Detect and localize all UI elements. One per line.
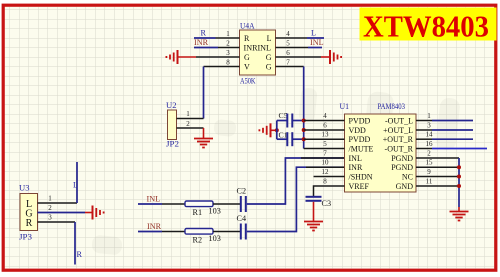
svg-text:V: V	[244, 63, 250, 72]
U2 pin 1	[177, 110, 204, 119]
svg-text:PGND: PGND	[391, 154, 413, 163]
wire R2 to C4	[213, 231, 240, 233]
wire net INL at U4A pin5	[308, 47, 322, 49]
svg-text:7: 7	[286, 59, 290, 67]
U1 right pin numbers	[426, 112, 434, 186]
wire U1 pin11 GND	[416, 185, 459, 187]
svg-text:INL: INL	[147, 195, 161, 204]
resistor R2	[185, 229, 221, 245]
svg-text:2: 2	[226, 40, 230, 48]
wire supply rail to U1 pin4	[304, 120, 345, 122]
svg-text:C2: C2	[237, 187, 247, 196]
U3 pin 1	[38, 195, 78, 204]
svg-text:8: 8	[323, 178, 327, 186]
svg-text:PVDD: PVDD	[349, 116, 371, 125]
wire ground at U3 pin2	[85, 212, 93, 214]
wire C2 to U1 pin7 (INL)	[247, 158, 345, 204]
svg-text:3: 3	[48, 214, 52, 222]
wire U1 pin1 -OUT_L	[416, 120, 432, 122]
earth ground below C3	[304, 222, 323, 231]
power ground (left-pointing) at caps	[259, 123, 270, 137]
power ground (right-pointing) at U4A pin6	[330, 50, 341, 64]
U3 pin 2	[38, 204, 86, 213]
svg-text:5: 5	[286, 40, 290, 48]
svg-text:INL: INL	[349, 154, 362, 163]
svg-text:4: 4	[323, 112, 327, 120]
U1 right pin names	[383, 116, 414, 191]
wire U4A pin8 down to U2 pin1	[203, 67, 205, 119]
svg-text:1: 1	[186, 110, 190, 118]
wire INL	[138, 203, 162, 205]
capacitor C3	[306, 197, 332, 208]
svg-text:R1: R1	[193, 208, 203, 217]
wire net INR to U4A pin2	[194, 47, 218, 49]
U4A pin 5	[276, 40, 309, 48]
wire ground to cap bracket	[271, 129, 277, 131]
svg-text:L: L	[267, 34, 272, 43]
wire cap bracket	[276, 121, 278, 140]
svg-text:JP2: JP2	[166, 140, 179, 149]
svg-text:INRINL: INRINL	[244, 44, 272, 53]
U4A pin 4	[276, 30, 308, 38]
svg-text:R: R	[26, 218, 33, 229]
earth ground below U2	[194, 139, 213, 148]
wire C4 to U1 pin10 (INR)	[247, 167, 345, 231]
U4A pin 7	[276, 59, 304, 67]
svg-text:103: 103	[209, 207, 221, 216]
svg-text:2: 2	[427, 150, 431, 158]
svg-text:VDD: VDD	[349, 126, 367, 135]
capacitor C4	[237, 214, 247, 240]
svg-text:1: 1	[226, 30, 230, 38]
IC U1 body	[340, 102, 417, 192]
ground bus wire	[458, 158, 460, 207]
U4A pin 1	[216, 30, 240, 38]
connector U3 body	[19, 184, 38, 242]
resistor R1	[185, 201, 221, 217]
svg-text:11: 11	[426, 178, 433, 186]
U2 pin 2	[177, 120, 204, 128]
wire net R to U4A pin1	[194, 37, 216, 39]
wire supply rail to U1 pin13	[304, 138, 345, 140]
svg-text:4: 4	[286, 30, 290, 38]
svg-text:2: 2	[186, 120, 190, 128]
wire ground to U4A pin3	[178, 56, 196, 58]
wire U1 pin3 +OUT_L	[416, 129, 432, 131]
wire net L at U4A pin4	[307, 37, 324, 39]
svg-text:7: 7	[323, 150, 327, 158]
svg-text:U1: U1	[340, 102, 350, 111]
connector U2 body	[166, 101, 179, 149]
svg-text:C4: C4	[237, 214, 247, 223]
U1 left pin numbers	[322, 112, 330, 186]
U4A pin 2	[218, 40, 240, 48]
svg-text:3: 3	[226, 49, 230, 57]
capacitor C2	[237, 187, 247, 213]
junction dots on supply rail	[302, 119, 306, 123]
svg-text:C3: C3	[322, 199, 332, 208]
svg-text:10: 10	[322, 159, 330, 167]
wire U1 pin8 VREF to C3	[314, 186, 345, 196]
U1 left pin names	[349, 116, 374, 191]
svg-text:2: 2	[48, 204, 52, 212]
svg-text:L: L	[73, 181, 78, 190]
wire U2 pin2 to ground	[203, 128, 205, 139]
svg-text:NC: NC	[402, 172, 413, 181]
svg-text:1: 1	[48, 195, 52, 203]
wire R1 to C2	[213, 203, 240, 205]
svg-text:8: 8	[226, 59, 230, 67]
U4A pin 8	[204, 59, 240, 67]
svg-text:R: R	[201, 29, 207, 38]
earth ground bottom right	[450, 212, 469, 221]
wire supply rail to U1 pin5 /MUTE	[304, 148, 345, 150]
svg-text:+OUT_R: +OUT_R	[383, 135, 414, 144]
wire net L up from U3 pin1	[76, 162, 78, 203]
capacitor C5	[277, 111, 304, 128]
svg-text:INR: INR	[194, 38, 209, 47]
svg-text:XTW8403: XTW8403	[363, 9, 489, 44]
op-amp U4A body	[240, 22, 276, 86]
wire U1 pin9 NC	[416, 176, 459, 178]
svg-text:16: 16	[426, 140, 434, 148]
svg-text:U2: U2	[166, 101, 177, 110]
svg-text:INR: INR	[147, 222, 162, 231]
U4A pin 3	[196, 49, 240, 57]
wire INR	[138, 231, 162, 233]
svg-text:U4A: U4A	[240, 22, 255, 31]
svg-text:R: R	[244, 34, 250, 43]
svg-text:/SHDN: /SHDN	[349, 172, 373, 181]
svg-text:U3: U3	[19, 184, 30, 193]
svg-text:A50K: A50K	[240, 77, 256, 86]
svg-text:G: G	[244, 53, 250, 62]
wire U1 pin15 PGND	[416, 166, 459, 168]
svg-text:G: G	[266, 63, 272, 72]
svg-text:+OUT_L: +OUT_L	[383, 126, 413, 135]
svg-text:/MUTE: /MUTE	[349, 144, 374, 153]
wire stub U1 pin12 /SHDN	[314, 176, 345, 178]
capacitor C1	[277, 131, 304, 147]
svg-text:R: R	[77, 250, 83, 259]
svg-text:-OUT_L: -OUT_L	[385, 116, 413, 125]
svg-text:3: 3	[427, 122, 431, 130]
svg-text:6: 6	[286, 49, 290, 57]
junction dots on ground bus	[457, 165, 461, 169]
power ground (right-pointing) at U3 pin2	[93, 206, 104, 220]
svg-text:-OUT_R: -OUT_R	[385, 144, 414, 153]
power ground (left-pointing) at U4A pin3	[166, 50, 177, 64]
svg-text:GND: GND	[396, 182, 414, 191]
svg-text:103: 103	[209, 234, 221, 243]
svg-text:15: 15	[426, 159, 434, 167]
svg-text:INL: INL	[310, 38, 324, 47]
svg-text:PAM8403: PAM8403	[378, 102, 406, 111]
U4A pin 6	[276, 49, 322, 57]
wire ground at U4A pin6	[321, 56, 330, 58]
svg-text:12: 12	[322, 168, 330, 176]
svg-text:5: 5	[323, 140, 327, 148]
svg-text:6: 6	[323, 122, 327, 130]
U3 pin 3	[38, 214, 76, 223]
svg-text:14: 14	[426, 131, 434, 139]
svg-text:JP3: JP3	[19, 233, 32, 242]
wire U1 pin14 +OUT_R	[416, 138, 432, 140]
svg-text:1: 1	[427, 112, 431, 120]
wire U4A pin7 down to supply rail	[303, 67, 305, 149]
wire supply rail to U1 pin6	[304, 129, 345, 131]
svg-text:R2: R2	[193, 236, 203, 245]
svg-text:VREF: VREF	[349, 182, 370, 191]
svg-text:L: L	[311, 29, 316, 38]
svg-text:9: 9	[427, 168, 431, 176]
svg-text:PGND: PGND	[391, 163, 413, 172]
wire U1 pin2 PGND	[416, 157, 459, 159]
junction dot	[275, 128, 279, 132]
svg-text:G: G	[266, 53, 272, 62]
svg-text:PVDD: PVDD	[349, 135, 371, 144]
wire net R down from U3 pin3	[74, 222, 76, 265]
svg-text:INR: INR	[349, 163, 363, 172]
title banner XTW8403	[360, 8, 497, 44]
wire U1 pin16 -OUT_R	[416, 148, 432, 150]
wire C3 to ground	[313, 202, 315, 222]
svg-text:13: 13	[322, 131, 330, 139]
